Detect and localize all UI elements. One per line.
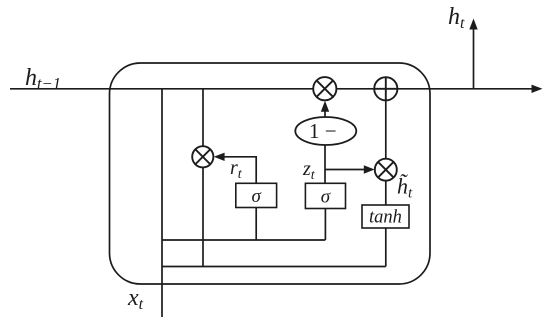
cell boundary rounded rectangle [110,63,431,284]
svg-text:h̃t: h̃t [397,174,413,202]
wire: reset branch vertical through left multiplier [202,89,204,267]
wire: bottom bus 1 [162,239,325,241]
wire: adder down to right multiplier [385,77,387,160]
wire: h_t output vertical [473,27,475,89]
arrowhead: h_t up [469,19,477,30]
multiply node: top circle-cross [313,77,336,100]
svg-text:ht−1: ht−1 [25,65,61,93]
wire: sigma r drop to bus 1 [255,208,257,241]
wire: x_t vertical input line [161,89,163,317]
wire: sigma z drop to bus 1 [324,209,326,241]
svg-text:xt: xt [127,285,144,313]
arrowhead: into right multiplier [364,165,375,173]
arrowhead: main line output right [532,85,543,93]
multiply node: left circle-cross [192,146,213,167]
svg-text:σ: σ [252,186,262,207]
wire: arrow from ellipse up to top multiplier [324,104,326,118]
adder node: circle-plus [374,77,397,100]
arrowhead: into left multiplier [214,153,225,161]
sigma box: update gate [305,183,345,208]
wire: z_t line from ellipse to sigma z box [324,144,326,183]
svg-text:tanh: tanh [369,208,402,228]
svg-text:rt: rt [230,157,243,182]
sigma box: reset gate [236,183,277,207]
svg-text:1 −: 1 − [309,119,337,143]
svg-text:zt: zt [302,158,316,183]
arrowhead: up into top multiplier [321,101,329,112]
multiply node: right circle-cross [375,159,397,181]
svg-text:ht: ht [448,4,465,32]
wire: h(t-1) main horizontal line [10,88,534,90]
tanh box [362,205,409,228]
wire: z_t branch to right multiplier [325,169,373,171]
wire: right multiplier down to tanh box [385,181,387,205]
wire: bottom bus 2 [162,266,386,268]
ellipse node: 1 minus [295,117,356,145]
wire: r_t gate line into left multiplier [217,157,257,184]
svg-text:σ: σ [321,187,331,208]
wire: tanh drop to bus 2 [385,228,387,267]
